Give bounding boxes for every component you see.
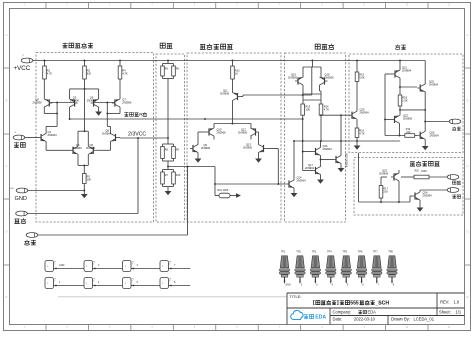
svg-text:2N3906: 2N3906 — [220, 91, 230, 95]
svg-text:2N3906: 2N3906 — [325, 76, 335, 80]
svg-text:2N3906: 2N3906 — [87, 99, 97, 103]
svg-text:C: C — [6, 165, 8, 168]
svg-text:2N3904: 2N3904 — [402, 68, 412, 72]
svg-text:C: C — [467, 165, 469, 168]
svg-text:Sheet:: Sheet: — [439, 310, 451, 315]
svg-text:6: 6 — [93, 281, 94, 283]
svg-text:2022-03-10: 2022-03-10 — [354, 316, 376, 321]
svg-text:2N3904: 2N3904 — [48, 133, 58, 137]
svg-text:TP4: TP4 — [327, 250, 332, 253]
svg-text:2N3904: 2N3904 — [430, 133, 440, 137]
svg-text:2N3904: 2N3904 — [73, 146, 83, 150]
svg-text:2N3906: 2N3906 — [217, 131, 227, 135]
svg-text:8: 8 — [169, 281, 170, 283]
svg-text:2N3904: 2N3904 — [102, 132, 112, 136]
svg-text:]: ] — [337, 300, 339, 306]
svg-text:TP1: TP1 — [281, 250, 286, 253]
svg-text:LCEDA_01: LCEDA_01 — [414, 316, 435, 321]
svg-text:GND: GND — [285, 283, 291, 286]
svg-text:TP3: TP3 — [312, 250, 317, 253]
svg-text:10K: 10K — [87, 178, 92, 182]
svg-text:4: 4 — [169, 264, 170, 266]
svg-text:Company:: Company: — [333, 310, 352, 315]
svg-text:REV:: REV: — [440, 300, 449, 305]
svg-text:620: 620 — [87, 72, 92, 76]
svg-text:TP5: TP5 — [342, 250, 347, 253]
svg-text:2N3906: 2N3906 — [122, 100, 132, 104]
svg-text:TP2: TP2 — [296, 250, 301, 253]
svg-text:220: 220 — [406, 131, 411, 134]
svg-text:5: 5 — [54, 281, 55, 283]
svg-text:2N3904: 2N3904 — [429, 82, 439, 86]
svg-text:2N3906: 2N3906 — [33, 100, 43, 104]
svg-text:_SCH: _SCH — [374, 300, 389, 306]
svg-text:1.0: 1.0 — [454, 300, 460, 305]
svg-text:GND: GND — [10, 188, 15, 190]
svg-text:1: 1 — [54, 264, 55, 266]
svg-text:Date:: Date: — [333, 316, 343, 321]
svg-text:2N3906: 2N3906 — [379, 172, 389, 176]
svg-text:2/3VCC: 2/3VCC — [128, 132, 146, 138]
svg-text:4.7K: 4.7K — [359, 132, 365, 136]
svg-text:Q18 2N3906: Q18 2N3906 — [345, 153, 348, 168]
svg-text:2N3904: 2N3904 — [323, 147, 333, 151]
svg-text:7: 7 — [132, 281, 133, 283]
svg-text:1K: 1K — [235, 72, 238, 76]
svg-text:2N3906: 2N3906 — [70, 99, 80, 103]
svg-text:D: D — [467, 231, 469, 234]
svg-text:TP7: TP7 — [373, 250, 378, 253]
svg-text:2N3906: 2N3906 — [243, 146, 253, 150]
svg-text:2N3906: 2N3906 — [238, 131, 248, 135]
svg-text:2: 2 — [93, 264, 94, 266]
svg-text:100K: 100K — [421, 170, 427, 173]
svg-text:4.7K: 4.7K — [324, 108, 330, 112]
svg-text:5.6K: 5.6K — [359, 76, 365, 80]
svg-text:R10: R10 — [176, 174, 181, 177]
svg-text:TP8: TP8 — [388, 250, 393, 253]
svg-text:10K: 10K — [305, 108, 310, 112]
svg-text:Drawn By:: Drawn By: — [391, 316, 410, 321]
svg-text:R: R — [139, 112, 143, 118]
svg-text:TITLE:: TITLE: — [290, 294, 302, 299]
svg-text:2N3904: 2N3904 — [297, 179, 307, 183]
svg-text:3: 3 — [132, 264, 133, 266]
svg-text:TP6: TP6 — [358, 250, 363, 253]
svg-text:2N3904: 2N3904 — [423, 193, 433, 197]
svg-text:100: 100 — [383, 190, 388, 194]
svg-text:2N3904: 2N3904 — [305, 166, 315, 170]
svg-text:EDA: EDA — [315, 315, 326, 321]
svg-text:4.7K: 4.7K — [47, 72, 53, 76]
svg-text:2N3904: 2N3904 — [360, 111, 370, 115]
svg-text:555: 555 — [350, 300, 359, 306]
svg-text:R20: R20 — [415, 171, 420, 173]
svg-text:+VCC: +VCC — [14, 65, 31, 72]
svg-text:D: D — [6, 231, 8, 234]
svg-text:2N3906: 2N3906 — [288, 76, 298, 80]
svg-text:GND: GND — [15, 196, 27, 202]
svg-text:GND: GND — [59, 264, 65, 267]
svg-text:2N3906: 2N3906 — [201, 146, 211, 150]
svg-text:R11 100K: R11 100K — [218, 189, 229, 192]
svg-text:EDA: EDA — [368, 310, 377, 315]
svg-text:1.5K: 1.5K — [402, 99, 408, 103]
svg-text:2N3904: 2N3904 — [86, 146, 96, 150]
svg-text:4.7K: 4.7K — [122, 72, 128, 76]
svg-text:2N3906: 2N3906 — [403, 117, 413, 121]
svg-text:[: [ — [313, 300, 315, 306]
svg-text:1/1: 1/1 — [456, 310, 462, 315]
